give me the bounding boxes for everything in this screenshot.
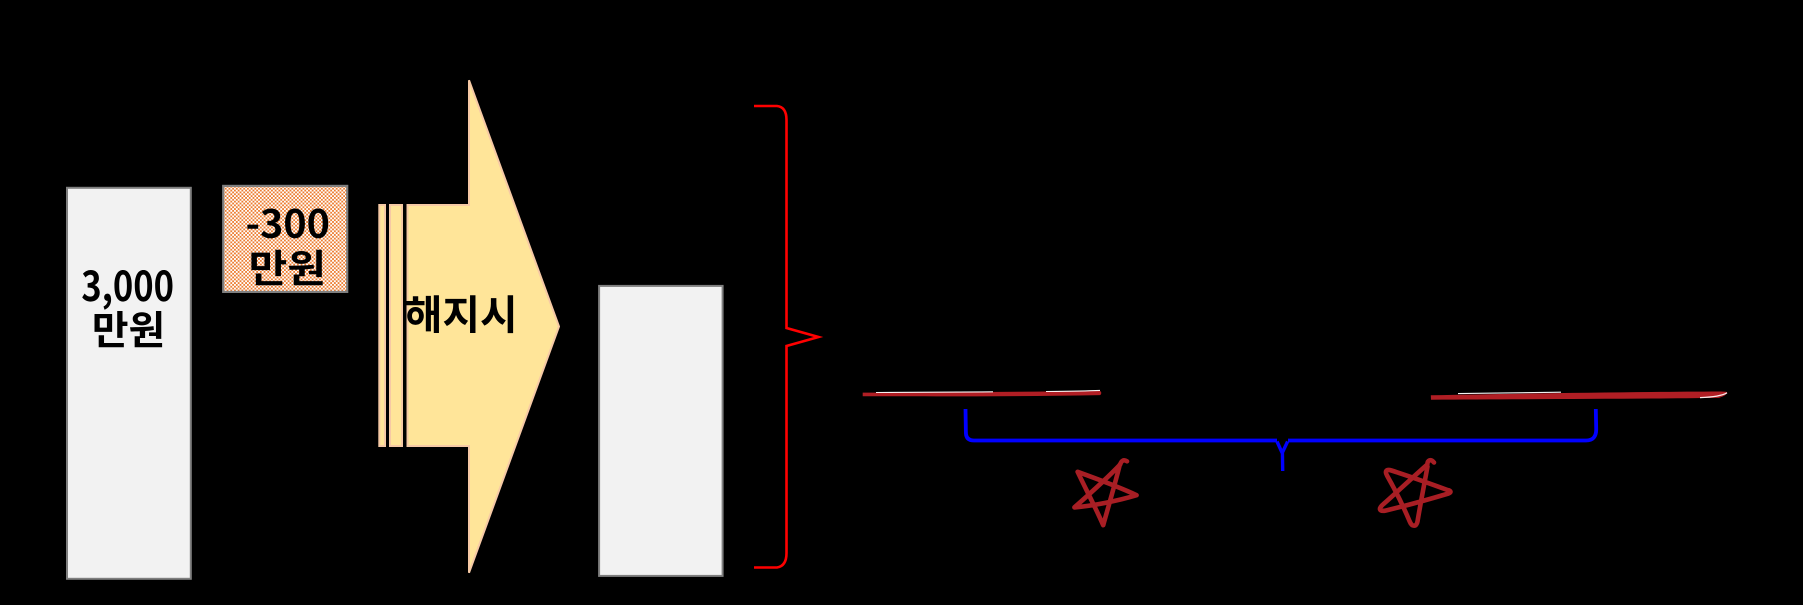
striped arrow stripe 2 [390, 205, 402, 446]
blue brace center cusp [1277, 442, 1288, 472]
hatched box -300 [223, 186, 347, 292]
white glare underline 1 [876, 391, 993, 394]
bar 2 [599, 286, 723, 576]
box label 만원 [251, 250, 322, 286]
bar 3000 [67, 188, 191, 579]
striped arrow body and head [408, 80, 560, 573]
red ink underline 1 [863, 391, 1102, 396]
red ink underline 2 [1431, 391, 1727, 399]
box label -300 [247, 208, 328, 238]
star 2 [1380, 460, 1450, 526]
white glare underline 2 [1458, 392, 1561, 393]
star 1 [1074, 460, 1136, 525]
bar label 3,000 [82, 270, 172, 310]
striped arrow stripe 1 [379, 205, 385, 446]
arrow label 해지시 [406, 295, 513, 333]
bar label 만원 [95, 311, 163, 347]
blue curly brace [966, 409, 1597, 441]
red curly brace [754, 106, 819, 568]
